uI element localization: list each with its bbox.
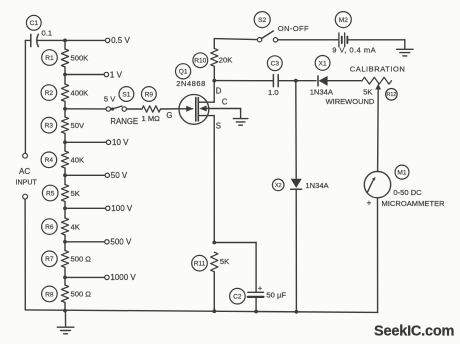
svg-text:1.0: 1.0 — [268, 88, 279, 97]
svg-text:0.5 V: 0.5 V — [111, 36, 130, 45]
svg-text:10 V: 10 V — [112, 138, 129, 147]
svg-text:9 V, 0.4 mA: 9 V, 0.4 mA — [332, 46, 376, 55]
svg-text:50 µF: 50 µF — [266, 291, 286, 300]
svg-text:5K: 5K — [71, 189, 80, 198]
svg-text:1000 V: 1000 V — [110, 273, 136, 282]
svg-text:0-50 DC: 0-50 DC — [393, 188, 422, 197]
svg-text:SeekIC.com: SeekIC.com — [374, 324, 454, 340]
svg-text:50V: 50V — [71, 121, 85, 130]
svg-text:+: + — [367, 198, 372, 207]
svg-text:500 Ω: 500 Ω — [71, 255, 92, 264]
svg-text:S1: S1 — [122, 91, 130, 98]
svg-text:R7: R7 — [45, 256, 54, 263]
svg-text:R8: R8 — [45, 291, 54, 298]
svg-text:Q1: Q1 — [179, 69, 188, 76]
svg-text:AC: AC — [19, 167, 30, 176]
svg-text:400K: 400K — [71, 88, 89, 97]
svg-text:R10: R10 — [194, 58, 206, 65]
svg-text:0.1: 0.1 — [42, 29, 53, 38]
svg-text:1 MΩ: 1 MΩ — [142, 114, 161, 123]
svg-text:S2: S2 — [258, 17, 266, 24]
svg-text:R12: R12 — [386, 92, 396, 98]
svg-text:R4: R4 — [45, 157, 54, 164]
svg-text:50 V: 50 V — [111, 171, 128, 180]
svg-text:5K: 5K — [363, 88, 372, 97]
svg-text:S: S — [216, 122, 221, 131]
svg-text:WIREWOUND: WIREWOUND — [326, 97, 375, 106]
svg-text:500 V: 500 V — [110, 238, 132, 247]
svg-text:1 V: 1 V — [110, 70, 123, 79]
svg-text:R3: R3 — [45, 123, 54, 130]
svg-text:+: + — [258, 283, 263, 292]
svg-text:4K: 4K — [71, 222, 80, 231]
svg-text:5K: 5K — [220, 257, 229, 266]
svg-text:2N4868: 2N4868 — [176, 79, 206, 88]
svg-text:M1: M1 — [397, 169, 406, 176]
svg-text:X1: X1 — [319, 60, 327, 67]
svg-text:C: C — [222, 98, 228, 107]
svg-text:20K: 20K — [219, 56, 233, 65]
svg-text:CALIBRATION: CALIBRATION — [350, 64, 406, 73]
svg-text:C3: C3 — [271, 61, 280, 68]
svg-text:R5: R5 — [46, 190, 55, 197]
svg-text:R6: R6 — [45, 224, 54, 231]
svg-text:500 Ω: 500 Ω — [71, 290, 92, 299]
svg-text:G: G — [166, 111, 172, 120]
svg-text:D: D — [216, 87, 222, 96]
svg-text:R2: R2 — [45, 90, 54, 97]
svg-text:C2: C2 — [233, 294, 242, 301]
svg-text:M2: M2 — [339, 17, 348, 24]
svg-text:1N34A: 1N34A — [310, 87, 334, 96]
svg-text:R11: R11 — [194, 261, 206, 268]
svg-text:1N34A: 1N34A — [305, 181, 329, 190]
svg-text:40K: 40K — [71, 156, 85, 165]
svg-text:C1: C1 — [30, 20, 39, 27]
svg-text:100 V: 100 V — [111, 204, 133, 213]
svg-text:500K: 500K — [71, 53, 89, 62]
svg-text:RANGE: RANGE — [110, 117, 138, 126]
svg-text:ON-OFF: ON-OFF — [278, 24, 309, 33]
svg-text:MICROAMMETER: MICROAMMETER — [382, 199, 446, 208]
svg-text:R9: R9 — [145, 91, 154, 98]
svg-text:X2: X2 — [275, 183, 282, 189]
svg-text:5 V: 5 V — [104, 94, 116, 103]
svg-text:R1: R1 — [45, 55, 54, 62]
svg-text:INPUT: INPUT — [16, 178, 38, 186]
